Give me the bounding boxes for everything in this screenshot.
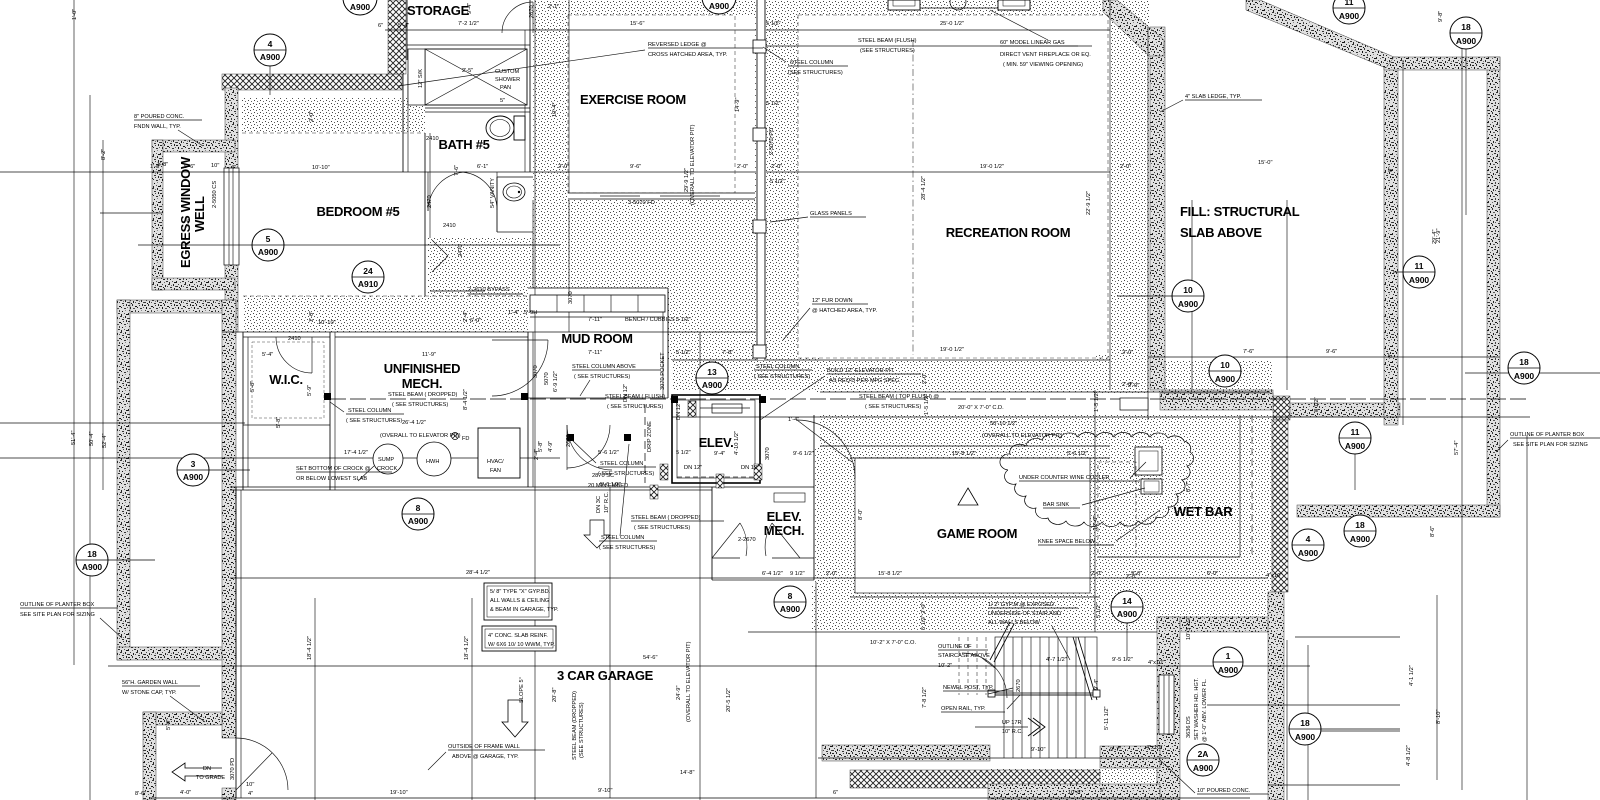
svg-text:6'-0": 6'-0" [1207, 571, 1218, 577]
glass wall column squares [753, 40, 766, 53]
wall: west garage foundation wall [222, 300, 236, 738]
svg-text:9'-4": 9'-4" [467, 3, 473, 14]
svg-text:7'-6": 7'-6" [1243, 349, 1254, 355]
door arc: hall 2670 crossing [567, 425, 610, 468]
dim line y578 [700, 577, 1268, 579]
svg-text:54" VANITY: 54" VANITY [490, 178, 496, 208]
bedroom east wall [424, 133, 426, 296]
svg-text:OUTLINE OF PLANTER BOX: OUTLINE OF PLANTER BOX [1510, 432, 1585, 438]
planter small rect top [1120, 398, 1148, 410]
svg-text:A900: A900 [1409, 275, 1430, 285]
svg-text:GLASS PANELS: GLASS PANELS [810, 211, 852, 217]
svg-text:FILL: STRUCTURAL: FILL: STRUCTURAL [1180, 204, 1300, 219]
svg-text:5'-9H: 5'-9H [524, 310, 537, 316]
svg-text:18: 18 [1461, 22, 1471, 32]
svg-text:FAN: FAN [490, 468, 501, 474]
svg-text:2'-0": 2'-0" [1122, 350, 1133, 356]
svg-text:A900: A900 [1298, 548, 1319, 558]
wall: right enclosure bottom [1297, 505, 1500, 517]
svg-text:SET BOTTOM OF CROCK @: SET BOTTOM OF CROCK @ [296, 466, 371, 472]
svg-text:29'-9 1/2": 29'-9 1/2" [684, 168, 690, 192]
svg-text:5 1/2": 5 1/2" [770, 179, 785, 185]
dim line y785 right [1268, 784, 1400, 786]
svg-text:A900: A900 [1514, 371, 1535, 381]
svg-text:W.I.C.: W.I.C. [269, 372, 303, 387]
svg-text:STEEL COLUMN: STEEL COLUMN [790, 60, 833, 66]
grid line vertical x1287 low [1286, 640, 1288, 800]
floor hatch: band above beam [672, 358, 820, 394]
beam line y46 [762, 45, 1078, 47]
garage west wall lines [235, 487, 237, 798]
grid line vertical x1308 low [1307, 645, 1309, 800]
elevator pit dashed [677, 476, 755, 478]
room white: elevator block [665, 390, 815, 585]
newel posts [988, 690, 995, 697]
dashed: drip zone [644, 405, 646, 483]
floor hatch: bottom strip near stairs [988, 768, 1160, 800]
svg-text:2670: 2670 [1016, 679, 1022, 692]
svg-text:20'-0" X 7'-0" C.D.: 20'-0" X 7'-0" C.D. [958, 405, 1004, 411]
svg-text:DN: DN [203, 766, 211, 772]
dim line y572 garage [230, 577, 700, 579]
svg-text:3 CAR GARAGE: 3 CAR GARAGE [557, 668, 654, 683]
svg-text:BATH #5: BATH #5 [438, 137, 489, 152]
svg-text:29'-4": 29'-4" [1432, 230, 1438, 245]
svg-text:5'-9": 5'-9" [307, 385, 313, 396]
callout 11/A900 court [1339, 422, 1371, 490]
svg-text:26'-4 1/2": 26'-4 1/2" [402, 420, 426, 426]
svg-text:6": 6" [378, 23, 383, 29]
dashed: exercise room ceiling line [568, 15, 735, 193]
svg-text:7'-11": 7'-11" [588, 350, 602, 356]
svg-text:9'-7": 9'-7" [1110, 747, 1121, 753]
svg-text:8'-10": 8'-10" [1436, 710, 1442, 725]
exercise room south window wall [568, 193, 755, 200]
grid line vertical x700 [699, 332, 701, 800]
svg-text:RECREATION ROOM: RECREATION ROOM [946, 225, 1071, 240]
door arc: bedroom 2470 [428, 172, 467, 211]
revision cloud wet bar [1000, 432, 1194, 526]
svg-text:STORAGE: STORAGE [407, 3, 470, 18]
svg-text:6'-0": 6'-0" [470, 318, 481, 324]
svg-text:9'-4": 9'-4" [1094, 679, 1100, 690]
svg-text:2410: 2410 [426, 136, 439, 142]
svg-text:( SEE STRUCTURES): ( SEE STRUCTURES) [392, 402, 448, 408]
svg-text:A900: A900 [408, 516, 429, 526]
svg-text:28'-4 1/2": 28'-4 1/2" [466, 570, 490, 576]
callout 10/A900 lower [1209, 355, 1241, 387]
svg-text:AS REQ'D PER MFG SPEC.: AS REQ'D PER MFG SPEC. [829, 378, 901, 384]
svg-text:( SEE STRUCTURES): ( SEE STRUCTURES) [865, 404, 921, 410]
svg-text:3636 DS: 3636 DS [1186, 716, 1192, 738]
callout 18/A900 top right [1450, 17, 1482, 215]
jamb hatch blocks [660, 464, 668, 480]
stair direction arrow [1028, 718, 1040, 736]
svg-text:19'-0 1/2": 19'-0 1/2" [980, 164, 1004, 170]
wall: garden wall L [143, 712, 222, 725]
dim line y637 right [1295, 636, 1400, 638]
callout A900 top cut left [343, 0, 377, 15]
garage note box 2 [482, 626, 556, 651]
wall: planter box ring [117, 300, 236, 313]
callout 18/A900 court [1344, 515, 1376, 547]
svg-text:10" R.C.: 10" R.C. [604, 491, 610, 513]
svg-text:STEEL BEAM ( FLUSH): STEEL BEAM ( FLUSH) [605, 394, 665, 400]
wall: south wall of right court [1290, 403, 1400, 417]
svg-text:8'-7": 8'-7" [1186, 481, 1192, 492]
svg-text:22'-9 1/2": 22'-9 1/2" [1086, 191, 1092, 215]
svg-text:10'-2" X 7'-0" C.O.: 10'-2" X 7'-0" C.O. [870, 640, 916, 646]
svg-text:TO GRADE: TO GRADE [196, 775, 225, 781]
room white: mud room [528, 288, 668, 398]
svg-text:15'-8 1/2": 15'-8 1/2" [878, 571, 902, 577]
grid line vertical garage 1 [314, 598, 316, 800]
svg-text:28'-4 1/2": 28'-4 1/2" [921, 176, 927, 200]
svg-text:5'-6 1/2": 5'-6 1/2" [1067, 451, 1088, 457]
svg-text:4'-10 1/2": 4'-10 1/2" [734, 431, 740, 455]
callout 11/A900 top cut [1333, 0, 1365, 24]
svg-text:9'-8": 9'-8" [1438, 11, 1444, 22]
bottom line y798 [150, 797, 1250, 799]
callout 8/A900 mid left [402, 498, 434, 530]
svg-text:(SEE STRUCTURES): (SEE STRUCTURES) [788, 70, 843, 76]
svg-text:STEEL COLUMN: STEEL COLUMN [601, 535, 644, 541]
svg-text:2-5050 CS: 2-5050 CS [212, 181, 218, 208]
wet bar sink [1141, 479, 1162, 494]
svg-text:20 MIN EMBED: 20 MIN EMBED [588, 483, 628, 489]
svg-text:A900: A900 [82, 562, 103, 572]
floor hatch: hall west of mudroom [428, 238, 533, 332]
dim line y731 right [1290, 730, 1400, 732]
svg-text:17'-4 1/2": 17'-4 1/2" [344, 450, 368, 456]
svg-text:WELL: WELL [192, 196, 207, 232]
mech north wall [335, 336, 528, 338]
svg-text:W/ STONE CAP, TYP.: W/ STONE CAP, TYP. [122, 690, 177, 696]
wall: wet bar north band [1160, 393, 1273, 410]
svg-text:A900: A900 [1456, 36, 1477, 46]
svg-text:A900: A900 [1350, 534, 1371, 544]
window: stair shaft window [1159, 675, 1174, 734]
svg-text:7'-8 1/2": 7'-8 1/2" [922, 687, 928, 708]
svg-text:STEEL BEAM ( TOP FLUSH) @: STEEL BEAM ( TOP FLUSH) @ [859, 394, 939, 400]
door arc: garage 2870 [567, 425, 612, 470]
floor hatch: game room / wet bar surround [812, 446, 1284, 630]
svg-text:5'-4": 5'-4" [262, 352, 273, 358]
svg-text:2-2670: 2-2670 [738, 537, 756, 543]
svg-text:( SEE STRUCTURES): ( SEE STRUCTURES) [607, 404, 663, 410]
svg-text:54'-6": 54'-6" [643, 655, 658, 661]
svg-text:5 1/2": 5 1/2" [766, 21, 781, 27]
floor hatch: bedroom south strip [243, 296, 528, 332]
svg-text:15'-8 1/2": 15'-8 1/2" [952, 451, 976, 457]
dim line y705 right [1207, 704, 1400, 706]
svg-text:FNDN WALL, TYP.: FNDN WALL, TYP. [134, 124, 181, 130]
callout 10/A900 [1117, 280, 1204, 312]
wall: top-left crosshatch wall horizontal [222, 74, 402, 90]
wall: stair shaft west wall [1157, 617, 1180, 800]
svg-text:6": 6" [833, 790, 838, 796]
wall: fill area west wall [1150, 27, 1165, 390]
svg-text:8'-2": 8'-2" [101, 149, 107, 160]
svg-text:1'-4": 1'-4" [508, 310, 519, 316]
svg-text:10'-10": 10'-10" [312, 165, 330, 171]
svg-text:18: 18 [1300, 718, 1310, 728]
svg-text:2'-0": 2'-0" [1128, 383, 1139, 389]
svg-text:10: 10 [1183, 285, 1193, 295]
svg-text:EXERCISE ROOM: EXERCISE ROOM [580, 92, 686, 107]
garage east wall [815, 582, 817, 798]
svg-text:2'-0": 2'-0" [1120, 164, 1131, 170]
svg-text:2'-4": 2'-4" [534, 449, 540, 460]
svg-text:2'-0": 2'-0" [558, 164, 569, 170]
svg-text:MECH.: MECH. [402, 376, 442, 391]
svg-text:UNDER COUNTER WINE COOLER: UNDER COUNTER WINE COOLER [1019, 475, 1109, 481]
grid line vertical x569 [568, 0, 570, 332]
callout 8/A900 mid [774, 586, 806, 618]
dim line y597 [850, 596, 1100, 598]
svg-text:9'-6": 9'-6" [1326, 349, 1337, 355]
svg-text:2470: 2470 [458, 244, 464, 257]
svg-text:OR BELOW LOWEST SLAB: OR BELOW LOWEST SLAB [296, 476, 367, 482]
FD symbol [452, 433, 459, 440]
svg-text:DIRECT VENT FIREPLACE OR EQ.: DIRECT VENT FIREPLACE OR EQ. [1000, 52, 1091, 58]
wall: crosshatch corner block [1273, 396, 1290, 420]
svg-text:11'-9": 11'-9" [422, 352, 436, 358]
svg-text:DN 12": DN 12" [741, 465, 759, 471]
wall: court east wall [1268, 592, 1284, 800]
svg-text:10'-8": 10'-8" [1068, 790, 1083, 796]
svg-text:5 1/2": 5 1/2" [676, 317, 691, 323]
W.I.C. closet dashed [252, 342, 324, 418]
svg-text:ABOVE @ GARAGE, TYP.: ABOVE @ GARAGE, TYP. [452, 754, 519, 760]
svg-text:20'-5 1/2": 20'-5 1/2" [726, 688, 732, 712]
callout 13/A900 [696, 362, 728, 394]
svg-text:9'-10": 9'-10" [1031, 747, 1046, 753]
wall: right enclosure left [1384, 57, 1398, 425]
svg-text:9'-4": 9'-4" [714, 451, 725, 457]
dim texts horizontal rows [135, 4, 1337, 797]
svg-text:5 1/2" 2'-0": 5 1/2" 2'-0" [921, 602, 927, 630]
dashed: recreation center line [912, 40, 914, 355]
stairs railing diagonals [1073, 637, 1092, 700]
svg-text:8'-6": 8'-6" [135, 791, 146, 797]
svg-text:4" CONC. SLAB REINF.: 4" CONC. SLAB REINF. [488, 633, 548, 639]
svg-text:4'-8 1/2": 4'-8 1/2" [1406, 745, 1412, 766]
svg-text:CUSTOM: CUSTOM [495, 69, 519, 75]
svg-text:STEEL COLUMN: STEEL COLUMN [756, 364, 799, 370]
svg-text:BUILD 12" ELEVATOR PIT: BUILD 12" ELEVATOR PIT [827, 368, 895, 374]
svg-text:18: 18 [1519, 357, 1529, 367]
svg-text:WET BAR: WET BAR [1174, 504, 1233, 519]
garage note box 1 [484, 583, 552, 620]
svg-text:5": 5" [500, 98, 505, 104]
svg-text:4'-1 1/2": 4'-1 1/2" [1409, 665, 1415, 686]
svg-text:& BEAM IN GARAGE, TYP.: & BEAM IN GARAGE, TYP. [490, 607, 559, 613]
svg-text:7'-8": 7'-8" [722, 350, 733, 356]
svg-text:10": 10" [211, 163, 219, 169]
svg-text:6'-9 1/2": 6'-9 1/2" [553, 371, 559, 392]
callout 18/A900 left [76, 544, 155, 576]
wall: egress window well bottom [152, 278, 235, 290]
svg-text:OUTSIDE OF FRAME WALL: OUTSIDE OF FRAME WALL [448, 744, 520, 750]
svg-text:14'-8": 14'-8" [680, 770, 695, 776]
stairs lower treads [995, 695, 1097, 758]
wall: bottom wall of stair area [822, 745, 990, 761]
floor hatch: band below beam [820, 415, 1273, 446]
tick marks [0, 0, 1, 1]
svg-text:8" POURED CONC.: 8" POURED CONC. [134, 114, 185, 120]
svg-text:SEE SITE PLAN FOR SIZING: SEE SITE PLAN FOR SIZING [1513, 442, 1588, 448]
svg-text:11: 11 [1351, 427, 1360, 437]
svg-text:STEEL BEAM ( DROPPED): STEEL BEAM ( DROPPED) [631, 515, 701, 521]
svg-text:ELEV.: ELEV. [699, 435, 734, 450]
svg-text:( MIN. 59" VIEWING OPENING): ( MIN. 59" VIEWING OPENING) [1003, 62, 1083, 68]
svg-text:18'-4 1/2": 18'-4 1/2" [307, 636, 313, 660]
dim line y357 right [1148, 356, 1500, 358]
svg-text:A900: A900 [780, 604, 801, 614]
room white: exercise room [568, 15, 755, 193]
svg-text:W/ 6X6 10/ 10 WWM, TYP.: W/ 6X6 10/ 10 WWM, TYP. [488, 642, 555, 648]
svg-text:A900: A900 [709, 1, 730, 11]
beam line y399 with dashes [330, 398, 1530, 400]
svg-text:ALL WALLS BELOW: ALL WALLS BELOW [988, 620, 1041, 626]
floor hatch: hall+exercise surround [533, 0, 798, 360]
svg-text:10'-3 1/2": 10'-3 1/2" [1186, 616, 1192, 640]
wall: wet bar east crosshatch wall [1272, 420, 1288, 592]
svg-text:A900: A900 [1295, 732, 1316, 742]
callout 1/A900 lower [1213, 647, 1243, 677]
wall: right enclosure right [1487, 57, 1500, 517]
floor hatch: recreation top strip [798, 0, 1110, 15]
dim line y373 right [1465, 372, 1600, 374]
mudroom-wall lines [528, 287, 668, 289]
grid line vertical garage 2 [471, 598, 473, 800]
svg-text:13: 13 [707, 367, 717, 377]
triangle marker 1 [958, 488, 978, 505]
svg-text:3070: 3070 [568, 291, 574, 304]
svg-text:A900: A900 [702, 380, 723, 390]
svg-text:2'-0": 2'-0" [922, 373, 928, 384]
svg-text:A900: A900 [1117, 609, 1138, 619]
svg-text:2-5070 PD: 2-5070 PD [769, 128, 775, 155]
door arcs: elev mech double [712, 523, 740, 558]
svg-text:DN 12": DN 12" [684, 465, 702, 471]
svg-text:10" POURED CONC.: 10" POURED CONC. [1197, 788, 1251, 794]
door arc: garden wall [236, 738, 288, 790]
svg-text:NEWEL POST, TYP.: NEWEL POST, TYP. [943, 685, 994, 691]
callout 14/A900 [1111, 591, 1143, 660]
svg-text:DN 12": DN 12" [676, 402, 682, 420]
svg-text:4: 4 [1306, 534, 1311, 544]
svg-text:SLOPE 5°: SLOPE 5° [519, 677, 525, 703]
svg-text:24'-9": 24'-9" [676, 686, 682, 701]
dashed: recreation room ceiling line [798, 15, 1108, 358]
svg-text:OUTLINE OF: OUTLINE OF [938, 644, 972, 650]
grid line vertical left B [89, 95, 91, 800]
svg-text:A900: A900 [258, 247, 279, 257]
svg-text:3070 POCKET: 3070 POCKET [660, 352, 666, 390]
dim line y332 [222, 331, 770, 333]
svg-text:8'-6": 8'-6" [1430, 526, 1436, 537]
svg-text:60" MODEL LINEAR GAS: 60" MODEL LINEAR GAS [1000, 40, 1065, 46]
svg-text:2'-1": 2'-1" [548, 4, 559, 10]
svg-text:2'-0": 2'-0" [1091, 571, 1102, 577]
door arc: storage 2670 [502, 2, 533, 33]
svg-text:7'-6": 7'-6" [454, 165, 460, 176]
wall: egress window well left [152, 140, 163, 290]
wet bar counter dashed [1251, 415, 1253, 557]
svg-text:19'-0 1/2": 19'-0 1/2" [940, 347, 964, 353]
svg-text:12'-0": 12'-0" [1093, 516, 1099, 531]
svg-text:1'-4": 1'-4" [788, 417, 799, 423]
dim line y755 [818, 757, 1170, 759]
svg-text:10" R.C.: 10" R.C. [1002, 729, 1023, 735]
mudroom bypass doors [430, 290, 485, 292]
svg-text:A900: A900 [1215, 374, 1236, 384]
svg-text:2470: 2470 [427, 195, 433, 208]
svg-text:2'-0": 2'-0" [309, 111, 315, 122]
svg-text:OPEN RAIL, TYP.: OPEN RAIL, TYP. [941, 706, 986, 712]
grid line vertical x1437 [1436, 595, 1438, 780]
svg-text:18: 18 [87, 549, 97, 559]
grid line vertical x1095 [1094, 390, 1096, 632]
svg-text:5'-4": 5'-4" [398, 23, 409, 29]
door arc: wic 2410 [276, 337, 312, 373]
svg-text:52'-4": 52'-4" [102, 434, 108, 449]
svg-text:14'-9": 14'-9" [735, 98, 741, 113]
svg-text:5'-6 1/2": 5'-6 1/2" [598, 450, 619, 456]
svg-text:50'-4": 50'-4" [89, 432, 95, 447]
svg-text:A900: A900 [1218, 665, 1239, 675]
svg-text:A900: A900 [183, 472, 204, 482]
dim line y417 [672, 416, 1530, 418]
wall: bottom crosshatch band [850, 770, 1100, 788]
dim line top y30 [385, 29, 1110, 31]
svg-text:DRIP ZONE: DRIP ZONE [647, 421, 653, 452]
svg-text:2'-0": 2'-0" [826, 571, 837, 577]
wall: right enclosure top [1384, 57, 1500, 70]
svg-text:SUMP: SUMP [378, 457, 394, 463]
svg-text:STEEL BEAM ( DROPPED): STEEL BEAM ( DROPPED) [388, 392, 458, 398]
svg-text:A900: A900 [350, 2, 371, 12]
dim line y392 [820, 391, 1270, 393]
callout 3/A900 [177, 454, 250, 486]
svg-text:2'-0": 2'-0" [309, 311, 315, 322]
svg-text:1/ 2" GYP.M @ EXPOSED: 1/ 2" GYP.M @ EXPOSED [988, 602, 1054, 608]
room white: game room [855, 458, 1090, 593]
svg-text:12" S/K: 12" S/K [418, 69, 424, 88]
svg-text:EGRESS WINDOW: EGRESS WINDOW [178, 156, 193, 268]
svg-text:4"x10": 4"x10" [1146, 745, 1162, 751]
callout A900 top cut mid [702, 0, 736, 14]
svg-text:OUTLINE OF PLANTER BOX: OUTLINE OF PLANTER BOX [20, 602, 95, 608]
floor hatch: slab ledge strip east of recreation [1110, 0, 1150, 390]
svg-text:( SEE STRUCTURES): ( SEE STRUCTURES) [574, 374, 630, 380]
svg-text:7'-11": 7'-11" [588, 317, 602, 323]
svg-text:4: 4 [268, 39, 273, 49]
grid line vertical left A [73, 0, 75, 665]
svg-text:24: 24 [363, 266, 373, 276]
door arc: stairs 2670 [962, 653, 1007, 698]
svg-text:2A: 2A [1198, 749, 1209, 759]
svg-text:A900: A900 [1345, 441, 1366, 451]
svg-text:BEDROOM #5: BEDROOM #5 [317, 204, 400, 219]
game room outline [855, 458, 1090, 593]
svg-text:25'-0 1/2": 25'-0 1/2" [940, 21, 964, 27]
svg-text:STEEL COLUMN: STEEL COLUMN [600, 461, 643, 467]
callout 11/A900 right [1393, 256, 1435, 288]
svg-text:A900: A900 [1193, 763, 1214, 773]
